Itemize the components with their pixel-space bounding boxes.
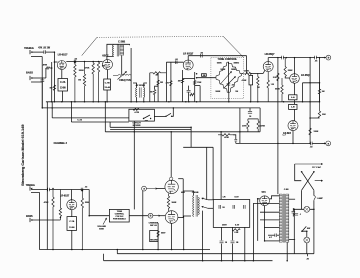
wire screen box bbox=[239, 108, 241, 132]
capacitor C3 .02 bbox=[175, 60, 177, 64]
svg-text:117 V AC: 117 V AC bbox=[312, 166, 321, 169]
wire arrow to V7 grid bbox=[153, 215, 160, 217]
svg-text:Stromberg Carlson Model 619-1: Stromberg Carlson Model 619-149 bbox=[21, 124, 25, 185]
svg-text:1M: 1M bbox=[78, 80, 81, 82]
wire V2 cathode to box bbox=[107, 70, 109, 80]
wire bus2 left rise bbox=[103, 254, 105, 261]
capacitor bank 3 bbox=[244, 205, 246, 209]
stub terminal bbox=[307, 254, 309, 257]
wire V5 cathode to box bbox=[71, 210, 73, 217]
jack J2 bbox=[29, 76, 31, 80]
fuse F1 bbox=[314, 196, 316, 201]
tube V5b LR-6E5 bbox=[288, 121, 298, 131]
svg-text:1MEG: 1MEG bbox=[231, 69, 237, 71]
svg-text:170K: 170K bbox=[197, 82, 202, 84]
wire col2 to col1 link bbox=[310, 117, 319, 119]
svg-text:.02: .02 bbox=[85, 187, 88, 189]
resistor R18 120K bbox=[309, 128, 311, 135]
svg-text:L-A: L-A bbox=[291, 96, 295, 99]
wire V4 cathode down bbox=[294, 83, 296, 95]
bus ground main bbox=[46, 101, 320, 103]
capacitor C8 .02 bbox=[311, 142, 313, 146]
tube V6 output bbox=[165, 180, 178, 193]
svg-text:1 AMP: 1 AMP bbox=[317, 197, 324, 200]
wire AC left down bbox=[295, 164, 302, 181]
boxed label 1M bbox=[202, 74, 207, 77]
svg-text:TREBLE: TREBLE bbox=[26, 185, 36, 187]
svg-text:220K: 220K bbox=[85, 202, 90, 204]
pilot lamp PL2 bbox=[304, 237, 310, 243]
svg-text:C-7A: C-7A bbox=[69, 220, 74, 223]
resistor R6 4M on frame top bbox=[150, 72, 167, 74]
svg-text:13-86: 13-86 bbox=[69, 227, 75, 229]
svg-text:.1: .1 bbox=[300, 214, 302, 216]
bus bottom 1 bbox=[39, 249, 210, 251]
wire V3 screen column bbox=[194, 72, 196, 102]
resistor R12 170K bbox=[194, 81, 196, 85]
transformer T4 primary winding bbox=[279, 194, 282, 242]
resistor R11 horizontal bbox=[190, 93, 194, 95]
wire X left leg down bbox=[301, 190, 303, 209]
svg-text:2.2K: 2.2K bbox=[273, 77, 278, 79]
terminal b bbox=[326, 55, 331, 60]
wire V7 cathode down bbox=[171, 223, 173, 249]
wire J1 tip bbox=[31, 51, 44, 53]
wire channel2 feed column bbox=[70, 102, 72, 122]
svg-text:470K: 470K bbox=[261, 124, 266, 127]
svg-text:TREBLE: TREBLE bbox=[24, 47, 34, 50]
wire J2 node up bbox=[45, 68, 47, 78]
wire T3 left down bbox=[183, 216, 185, 250]
wire link down bbox=[235, 142, 237, 144]
leader line to tone control box bbox=[82, 37, 97, 55]
wire T1 sec to slug coil bbox=[121, 55, 123, 74]
switch S2 bbox=[165, 116, 166, 117]
wire channel2 left boundary bbox=[46, 102, 48, 250]
svg-text:47M: 47M bbox=[43, 64, 47, 67]
svg-text:560V: 560V bbox=[161, 232, 166, 234]
wire lamp rail bbox=[294, 208, 314, 210]
jack J1 bbox=[29, 50, 31, 54]
jack J4 bbox=[29, 218, 31, 222]
wiper arrow 1 bbox=[220, 72, 232, 85]
wire plate column down bbox=[88, 190, 90, 216]
svg-text:6SC7: 6SC7 bbox=[102, 55, 109, 58]
capacitor C9 bbox=[248, 112, 252, 114]
wire T2 leads bbox=[133, 83, 137, 88]
capacitor bank 1 bbox=[219, 205, 221, 209]
wire terminal a drop bbox=[142, 191, 144, 250]
resistor R31 1M cathode bbox=[267, 72, 269, 102]
wire step 2 bbox=[220, 132, 222, 200]
tube V4 LR-6SQ7 bbox=[290, 74, 300, 84]
wire box to bus bbox=[61, 91, 63, 102]
box heater C-7A 13-86 ch2 bbox=[67, 217, 77, 231]
wire tone center vertical bbox=[227, 62, 229, 93]
resistor R8 bbox=[153, 90, 155, 102]
wire node down V1 grid column bbox=[53, 52, 55, 102]
svg-text:LR-6SJ7: LR-6SJ7 bbox=[58, 54, 68, 57]
wire tap 219 bbox=[260, 219, 279, 221]
wire record column bbox=[157, 223, 159, 250]
wire V1 plate bbox=[66, 61, 74, 63]
transformer T4 core bbox=[282, 194, 284, 243]
wire J1 sleeve bbox=[31, 56, 42, 58]
svg-text:TONE CONTROL: TONE CONTROL bbox=[218, 58, 238, 61]
transformer T1 secondary winding bbox=[120, 45, 124, 55]
resistor R16 250K plate load bbox=[284, 58, 286, 77]
wire V5b down to a-rail bbox=[292, 131, 294, 144]
resistor R7 1M bbox=[157, 80, 159, 85]
slug tuned coil L1 FREQ TUN bbox=[113, 75, 118, 77]
wire a-rail bbox=[236, 142, 310, 144]
wire V4 plate up bbox=[294, 58, 296, 74]
transformer T4 secondary winding bbox=[286, 194, 289, 242]
svg-text:13-86: 13-86 bbox=[60, 88, 66, 90]
resistor R15 1M bbox=[257, 73, 259, 101]
wire cathode cross bbox=[183, 77, 195, 79]
svg-text:560K: 560K bbox=[172, 202, 177, 204]
svg-text:1M: 1M bbox=[50, 87, 53, 89]
capacitor C2 .02 bbox=[74, 60, 76, 64]
svg-text:18: 18 bbox=[225, 242, 227, 244]
wire rect cathode tap bbox=[264, 206, 266, 241]
electrolytic C13 bbox=[221, 227, 223, 240]
capacitor C4 .05 bbox=[201, 54, 203, 58]
wire B+ top rail bbox=[268, 57, 281, 59]
wire T1 primary bottom bbox=[107, 55, 114, 57]
tone control dotted box bbox=[211, 58, 244, 99]
resistor R1b 1M bbox=[53, 85, 55, 91]
svg-text:1M: 1M bbox=[257, 87, 260, 89]
wire J3 sleeve ground bbox=[31, 193, 39, 250]
wire right rail down bbox=[313, 200, 315, 254]
bus bottom mid bbox=[117, 253, 314, 255]
switch S1 in box bbox=[143, 118, 144, 119]
wire V4 grid link bbox=[285, 77, 289, 79]
svg-text:6.3V: 6.3V bbox=[235, 225, 240, 227]
wire sleeve ground column bbox=[41, 57, 43, 108]
bus double upper bbox=[110, 126, 191, 128]
terminal a left bbox=[142, 186, 147, 191]
wire R1 to column bbox=[50, 67, 52, 69]
svg-text:C-7B: C-7B bbox=[105, 82, 110, 84]
wire mid column bbox=[170, 62, 172, 102]
arrow into terminal b bbox=[322, 57, 325, 58]
resistor R23 470K bbox=[257, 119, 259, 132]
wire cluster inner bbox=[248, 118, 258, 120]
wire S2 up bbox=[172, 108, 174, 116]
svg-text:500K: 500K bbox=[99, 229, 104, 231]
wire short column bbox=[302, 83, 304, 102]
boxed resistor R14 470K bbox=[249, 75, 253, 85]
wire tap 212 bbox=[260, 211, 279, 213]
wire V3 cathode down bbox=[182, 70, 184, 102]
svg-text:BASS: BASS bbox=[26, 71, 33, 74]
wire V1 cathode to box bbox=[61, 70, 63, 79]
capacitor C11 bbox=[48, 188, 50, 192]
svg-text:C-26B: C-26B bbox=[118, 40, 125, 43]
wire AC line 1 with arrow bbox=[295, 163, 323, 165]
resistor R9 470K bbox=[170, 81, 172, 86]
wire cluster drop bbox=[239, 132, 241, 144]
speaker arrow 2 bbox=[202, 206, 208, 208]
svg-text:SW: SW bbox=[307, 228, 310, 230]
AC crossover X bbox=[302, 172, 314, 190]
wire J2 sleeve bbox=[31, 81, 42, 83]
capacitor C6 bbox=[282, 56, 284, 60]
svg-text:C-88: C-88 bbox=[284, 189, 289, 191]
wire cathode link bbox=[51, 102, 53, 118]
resistor R30 on record column bbox=[157, 231, 159, 237]
wire tap 240 bbox=[265, 240, 280, 242]
resistor R4 470K bbox=[92, 62, 94, 102]
capacitor C1b under bass wire bbox=[40, 80, 44, 82]
svg-text:1M: 1M bbox=[235, 91, 238, 93]
wire step into double bus bbox=[109, 122, 111, 127]
transformer T1 primary winding bbox=[111, 45, 114, 56]
wire B3 left side bbox=[149, 73, 151, 102]
resistor R1 47M bbox=[46, 67, 50, 69]
terminal a bbox=[326, 141, 331, 146]
resistor R5 1M bbox=[97, 62, 99, 102]
wire power box right drop bbox=[244, 227, 246, 260]
bus double lower bbox=[110, 129, 191, 131]
wire box5 out bbox=[129, 215, 148, 217]
box heater C-7A 13-86 bbox=[58, 79, 68, 92]
switch S3 SW bbox=[301, 230, 303, 232]
wire bus drop at 105 bbox=[104, 102, 106, 132]
wire sec tap right top bbox=[289, 198, 295, 200]
wire T3 secondary down bbox=[202, 211, 204, 261]
wire plate bottom link bbox=[178, 217, 184, 219]
resistor R21 4.7M on box top bbox=[133, 108, 139, 110]
resistor R17 560K grid return bbox=[281, 78, 283, 102]
wire J2 tip bbox=[31, 77, 46, 79]
speaker arrow 1 bbox=[202, 198, 208, 200]
wire arrow to V6 grid bbox=[147, 188, 158, 190]
wire tone bottom to bus bbox=[228, 93, 230, 102]
svg-text:500K: 500K bbox=[216, 91, 221, 93]
wire L-B down to V5b bbox=[294, 109, 296, 120]
grid cap V6 bbox=[170, 177, 173, 180]
wire tone output bbox=[242, 72, 244, 74]
wire top rail bbox=[283, 57, 314, 59]
svg-text:470K: 470K bbox=[44, 201, 49, 204]
svg-text:FREQ TUN: FREQ TUN bbox=[119, 80, 131, 82]
wire plate rail to tone box bbox=[188, 55, 246, 57]
svg-text:220K: 220K bbox=[79, 70, 85, 72]
resistor R32 2.2K on B+ line bbox=[277, 73, 279, 81]
wire bus step bbox=[116, 250, 118, 254]
cutout box bbox=[129, 109, 155, 121]
svg-text:3M: 3M bbox=[322, 91, 325, 93]
wire lamp2 down bbox=[306, 243, 308, 254]
wire V1 grid bbox=[54, 61, 57, 63]
wire tap 235 with capacitor C15 4.7 bbox=[277, 234, 279, 236]
wire screen link bbox=[195, 85, 200, 87]
wire into V3 grid bbox=[166, 61, 183, 63]
wire right column 2 bbox=[319, 58, 321, 102]
wire rect right lead bbox=[269, 196, 279, 199]
capacitor C5 .05 in tone box bbox=[227, 84, 231, 86]
wire column 51 bbox=[51, 62, 53, 102]
svg-text:SW: SW bbox=[145, 121, 148, 123]
potentiometer P2 1MEG upper-right bbox=[228, 62, 241, 74]
potentiometer P1 500K upper-left bbox=[216, 62, 229, 78]
wire B+ long vertical bbox=[277, 58, 279, 195]
wire C2 to V2 grid bbox=[76, 61, 103, 63]
resistor R13 470K output bbox=[245, 72, 252, 74]
wire tone out to V4a grid bbox=[251, 72, 264, 74]
svg-text:18: 18 bbox=[249, 116, 251, 118]
svg-text:1 M: 1 M bbox=[271, 84, 275, 86]
svg-text:LR-6SQ7: LR-6SQ7 bbox=[265, 54, 276, 56]
bus bottom 2 bbox=[104, 260, 273, 262]
wire cutout lower rail bbox=[71, 121, 128, 123]
svg-text:LR-6SJ7: LR-6SJ7 bbox=[60, 195, 70, 197]
wire step 1 bbox=[190, 127, 192, 147]
terminal b left bbox=[148, 213, 153, 218]
svg-text:500K: 500K bbox=[221, 69, 226, 71]
svg-text:470K: 470K bbox=[244, 70, 249, 73]
tube V7 output bbox=[165, 211, 178, 224]
tube V5 bbox=[67, 200, 77, 210]
pilot lamp PL1 bbox=[304, 206, 310, 212]
wire tap 203 bbox=[253, 204, 279, 261]
wire top rail to terminal bbox=[316, 57, 326, 59]
capacitor C7 .05 bbox=[315, 56, 317, 60]
svg-text:120K: 120K bbox=[314, 131, 319, 133]
wire small link bbox=[233, 135, 236, 139]
svg-text:C-16: C-16 bbox=[77, 119, 82, 121]
svg-text:FOR MODELS: FOR MODELS bbox=[113, 219, 126, 221]
svg-text:20K: 20K bbox=[322, 114, 326, 116]
wire down to tone out bbox=[246, 56, 248, 74]
wiper arrow 2 bbox=[224, 77, 236, 89]
electrolytic C14 bbox=[232, 227, 234, 240]
wire feed down to box5 bbox=[133, 121, 135, 209]
junction dots bbox=[51, 101, 53, 103]
capacitor C16 across sec bbox=[292, 211, 296, 213]
svg-text:250K: 250K bbox=[288, 70, 293, 72]
svg-text:200V: 200V bbox=[222, 225, 227, 227]
wire L-A to L-B bbox=[294, 100, 296, 105]
wire B3 right side bbox=[165, 62, 167, 102]
capacitor C10 small bbox=[234, 140, 237, 141]
wire C1 to grid node bbox=[46, 51, 55, 53]
resistor R22 470K bbox=[247, 119, 249, 132]
svg-text:C-8GB: C-8GB bbox=[192, 192, 199, 194]
transformer T1 core bbox=[116, 45, 118, 57]
svg-text:2.2K: 2.2K bbox=[235, 232, 240, 234]
svg-text:RECORD: RECORD bbox=[150, 240, 158, 242]
wire box to switch 2 bbox=[154, 115, 165, 117]
jack J3 bbox=[29, 186, 31, 190]
svg-text:13-46: 13-46 bbox=[105, 86, 111, 89]
wire V2 plate up to T1 bbox=[107, 44, 130, 59]
wire B3 mid column bbox=[157, 73, 159, 102]
wire J4 tip bbox=[31, 219, 60, 221]
tube V4a first triode bbox=[263, 62, 273, 72]
capacitor C17 cathode bypass bbox=[187, 90, 191, 92]
svg-text:BASS: BASS bbox=[26, 215, 33, 218]
power box bbox=[213, 200, 249, 228]
bus third bbox=[105, 131, 260, 133]
resistor R19 20K bbox=[318, 102, 320, 118]
svg-text:470K: 470K bbox=[84, 66, 90, 69]
svg-text:470K: 470K bbox=[224, 136, 229, 139]
wire T4 bottom to bus bbox=[286, 242, 288, 260]
resistor R20 3M bbox=[318, 83, 320, 102]
resistor R2 220K bbox=[74, 62, 76, 102]
svg-text:L-B: L-B bbox=[291, 107, 295, 109]
wire grid drop into V5 bbox=[71, 190, 73, 200]
wire V4a plate up bbox=[267, 58, 269, 62]
choke L-B box bbox=[289, 104, 297, 109]
svg-text:470K: 470K bbox=[242, 79, 247, 82]
resistor R28 560K bbox=[167, 194, 169, 212]
svg-text:1MEG: 1MEG bbox=[234, 63, 240, 65]
wire 83 rail bbox=[303, 82, 320, 84]
resistor R24 470K horizontal bbox=[218, 134, 233, 136]
wire tap 227 bbox=[264, 226, 279, 228]
wire box2 to bus bbox=[106, 90, 108, 102]
choke L-A box bbox=[289, 95, 297, 100]
svg-text:1M: 1M bbox=[160, 82, 163, 84]
capacitor bank 2 bbox=[233, 205, 235, 209]
arrow into terminal a bbox=[322, 143, 326, 144]
resistor R3 1M bbox=[83, 62, 85, 102]
resistor R27 220K bbox=[81, 190, 83, 250]
svg-text:500K: 500K bbox=[217, 63, 222, 65]
box heater C-7B 13-46 bbox=[104, 79, 111, 90]
tone control box 2 bbox=[109, 209, 129, 222]
capacitor on left rail bbox=[295, 214, 298, 216]
wire sec tap right bottom bbox=[289, 239, 295, 241]
resistor R25 470K bbox=[52, 190, 54, 250]
resistor lower-right 1M bbox=[229, 74, 242, 93]
svg-text:SW 1-B: SW 1-B bbox=[150, 225, 157, 227]
wire C11 to V5 grid bbox=[49, 189, 89, 191]
wire J3 tip bbox=[31, 189, 48, 191]
wire plate bus bbox=[182, 179, 184, 218]
svg-text:8.3V: 8.3V bbox=[235, 197, 240, 199]
wire box4 to bus bbox=[71, 230, 73, 249]
capacitor C1 bbox=[44, 50, 46, 54]
svg-text:C-7A: C-7A bbox=[60, 81, 66, 84]
capacitor C12 .02 bbox=[81, 188, 83, 192]
wire switch to lamp2 bbox=[302, 231, 307, 237]
wire V3 plate up bbox=[187, 56, 189, 60]
svg-text:4.7M: 4.7M bbox=[135, 111, 140, 114]
tube V8 rectifier bbox=[260, 196, 270, 206]
bus second bbox=[42, 107, 260, 109]
svg-text:47K .05 1W: 47K .05 1W bbox=[38, 47, 51, 50]
svg-text:2M: 2M bbox=[150, 92, 153, 94]
svg-text:2M: 2M bbox=[178, 81, 181, 83]
svg-text:CHANNEL 2: CHANNEL 2 bbox=[54, 142, 68, 145]
wire volume line bbox=[89, 215, 109, 217]
wire T1 right column down bbox=[130, 48, 132, 102]
wire X right leg down bbox=[313, 190, 315, 195]
resistor lower-left 500K bbox=[216, 78, 229, 93]
wire rect left lead bbox=[258, 199, 260, 241]
record changer box bbox=[150, 231, 158, 242]
wire grid cap feed bbox=[170, 132, 172, 177]
resistor R29 2.2K horizontal bbox=[232, 229, 240, 231]
wire to output transformer bbox=[183, 191, 193, 195]
